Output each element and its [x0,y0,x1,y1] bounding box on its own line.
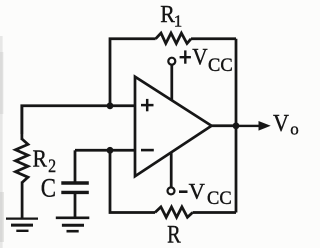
wire: R2 to ground [21,182,24,219]
wire: capacitor to ground [74,194,77,218]
capacitor C [61,183,89,192]
node: - input junction [107,147,114,154]
wire: left rail from + input node down to R2 [21,106,24,140]
wire: top rail right segment [191,37,236,40]
label +VCC plus sign [180,50,191,63]
svg-text:1: 1 [174,12,183,31]
wire: top rail left segment [110,39,156,106]
svg-text:C: C [41,174,56,203]
svg-text:o: o [290,120,299,139]
svg-text:CC: CC [208,56,233,76]
label -VCC minus sign [179,190,188,193]
wire: -VCC stem [170,152,173,187]
resistor R2 [16,139,29,183]
ground below C [56,218,90,232]
wire: inverting input wire [75,149,136,152]
output arrow [238,125,259,127]
svg-text:V: V [192,45,207,71]
svg-text:V: V [273,111,290,137]
resistor R1 [156,33,191,43]
svg-text:CC: CC [207,189,232,209]
node: + input junction [107,102,114,109]
wire: output from op-amp apex to node [211,124,236,127]
svg-text:R: R [167,219,181,248]
wire: right rail [235,39,238,213]
wire: capacitor top stub [74,150,77,181]
op-amp U1 [135,77,212,177]
wire: +VCC stem [170,65,173,101]
wire: non-inverting input wire [22,106,136,134]
resistor R [155,207,193,217]
svg-text:V: V [189,178,205,203]
op-amp + input marking [141,99,154,111]
op-amp - input marking [141,149,154,152]
node: output junction [233,122,240,129]
-VCC terminal circle [168,187,175,194]
svg-text:R: R [33,146,48,173]
wire: minus node down to bottom rail [110,150,155,212]
wire: bottom rail right segment [193,211,236,214]
+VCC terminal circle [168,58,175,65]
ground below R2 [6,218,38,231]
